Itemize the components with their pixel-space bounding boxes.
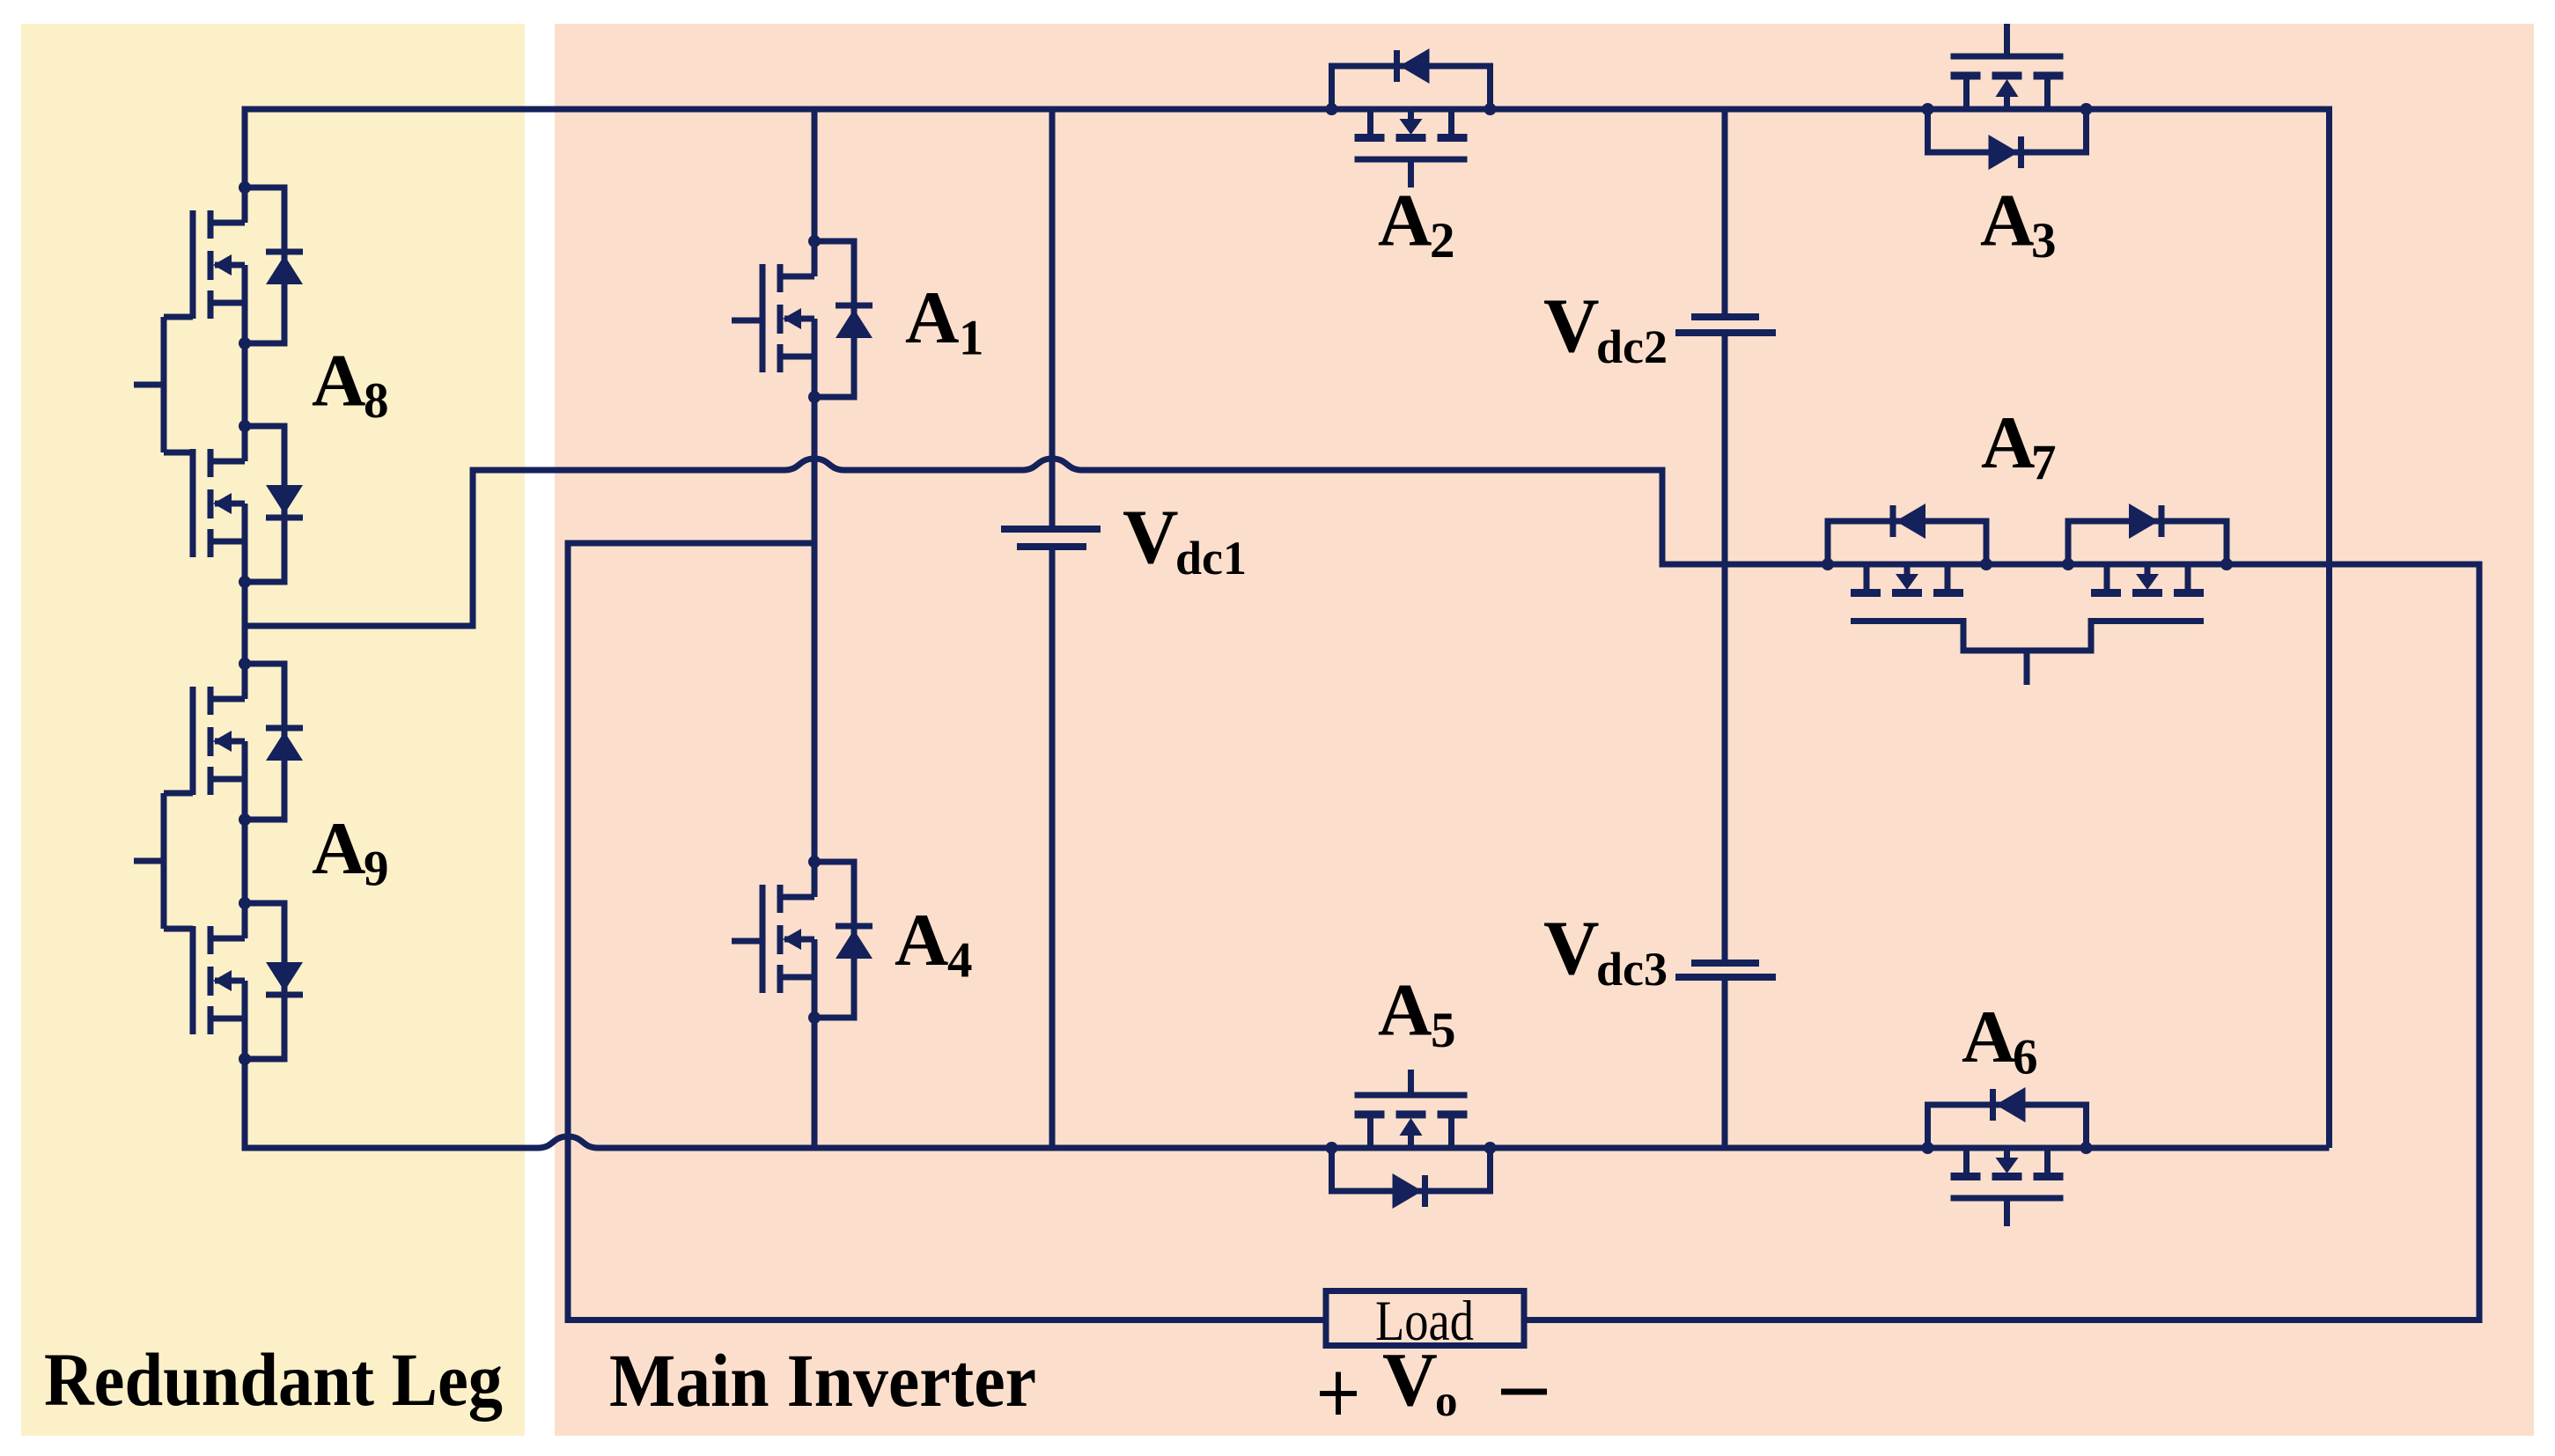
svg-text:A: A (1378, 969, 1432, 1052)
svg-text:V: V (1382, 1336, 1438, 1422)
label Vdc3 (1543, 906, 1668, 996)
svg-text:Redundant Leg: Redundant Leg (44, 1337, 503, 1422)
label A3 (1980, 180, 2057, 269)
transistor A7 left MOSFET with body diode (1822, 504, 1992, 593)
transistor A1 MOSFET with body diode (762, 235, 873, 403)
svg-text:dc1: dc1 (1175, 532, 1247, 585)
label A9 (312, 807, 389, 897)
transistor A4 MOSFET with body diode (762, 856, 873, 1024)
wire A8 mid link (242, 343, 248, 426)
svg-text:Main Inverter: Main Inverter (609, 1338, 1036, 1423)
label minus sign (1501, 1389, 1547, 1395)
pink background region Main Inverter (555, 24, 2534, 1436)
transistor A8 lower MOSFET with body diode (193, 420, 303, 588)
label A4 (895, 899, 973, 989)
wire A1 gate lead (732, 318, 762, 324)
svg-text:5: 5 (1431, 1003, 1456, 1058)
wire A4 gate lead (732, 938, 762, 945)
transistor A7 right MOSFET with body diode (2062, 504, 2233, 593)
wire A1-A4 leg vertical (812, 109, 818, 1148)
svg-text:V: V (1123, 495, 1179, 580)
label A6 (1962, 996, 2038, 1085)
label A8 (312, 340, 389, 430)
transistor A9 lower MOSFET with body diode (193, 897, 303, 1065)
svg-text:2: 2 (1430, 213, 1455, 268)
wire A8 gate bracket (134, 317, 193, 452)
svg-text:7: 7 (2031, 436, 2057, 491)
svg-text:9: 9 (364, 842, 389, 897)
wire bottom bus with hop over load riser (245, 1059, 2330, 1148)
svg-text:3: 3 (2031, 213, 2057, 268)
capacitor Vdc3 (1675, 963, 1776, 977)
label A5 (1378, 969, 1456, 1059)
svg-text:A: A (1962, 996, 2015, 1078)
transistor A8 upper MOSFET with body diode (193, 181, 303, 349)
svg-text:dc2: dc2 (1596, 320, 1668, 373)
svg-text:A: A (312, 340, 365, 423)
svg-text:V: V (1543, 283, 1600, 369)
label A2 (1378, 180, 1455, 269)
svg-text:o: o (1435, 1377, 1458, 1426)
svg-text:8: 8 (364, 373, 389, 429)
svg-text:A: A (1378, 180, 1432, 262)
transistor A3 MOSFET with body diode (1922, 24, 2093, 170)
label plus sign (1320, 1372, 1357, 1416)
transistor A5 MOSFET with body diode (1326, 1070, 1497, 1209)
svg-text:A: A (1980, 180, 2034, 262)
yellow background region Redundant Leg (21, 24, 525, 1436)
wire Vdc2-Vdc3 vertical (1722, 109, 1728, 1148)
svg-text:dc3: dc3 (1596, 943, 1668, 996)
capacitor Vdc1 (1001, 529, 1101, 547)
wire Vdc1 vertical (1049, 109, 1056, 1148)
svg-text:A: A (1981, 401, 2035, 484)
capacitor Vdc2 (1675, 317, 1776, 333)
svg-text:6: 6 (2013, 1030, 2038, 1085)
wire A7 shared gate bars and bracket (1851, 621, 2204, 686)
svg-text:A: A (895, 899, 948, 982)
svg-text:A: A (905, 276, 959, 359)
wire A8-A9 midpoint to middle bus to A7 row to load right (245, 459, 2479, 1320)
svg-text:A: A (312, 807, 365, 890)
label Vdc2 (1543, 283, 1668, 373)
svg-text:1: 1 (959, 311, 984, 366)
label Vdc1 (1123, 495, 1247, 585)
transistor A2 MOSFET with body diode (1326, 48, 1497, 188)
wire A9 mid link (242, 820, 248, 903)
label A7 (1981, 401, 2057, 491)
label Vo (1382, 1336, 1458, 1426)
svg-text:V: V (1543, 906, 1600, 991)
svg-text:4: 4 (947, 933, 973, 989)
resistor Load box (1326, 1291, 1524, 1346)
wire load left riser and A1-A4 node link (568, 543, 1326, 1320)
transistor A9 upper MOSFET with body diode (193, 658, 303, 826)
transistor A6 MOSFET with body diode (1922, 1087, 2093, 1226)
wire top bus and right vertical (245, 109, 2330, 1148)
wire A9 gate bracket (134, 793, 193, 929)
label A1 (905, 276, 984, 366)
